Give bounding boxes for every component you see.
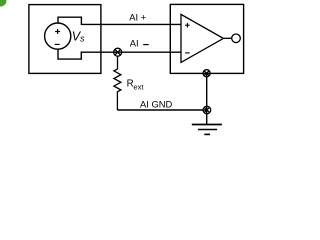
svg-text:AI +: AI +	[129, 12, 146, 23]
svg-text:s: s	[80, 33, 85, 43]
VS plus terminal mark	[55, 29, 60, 34]
svg-text:ext: ext	[133, 82, 144, 91]
resistor Rext	[114, 56, 121, 110]
ground symbol	[192, 125, 222, 135]
svg-text:AI GND: AI GND	[140, 99, 173, 110]
wire: AI GND vertical drop from DAQ box to ground	[206, 73, 208, 124]
connector pin (circled X) on AI- wire	[114, 48, 122, 56]
signal source enclosure box	[29, 5, 101, 74]
VS minus terminal mark	[55, 43, 60, 45]
DAQ device box	[170, 4, 243, 73]
voltage source VS circle	[45, 23, 71, 49]
svg-text:AI: AI	[130, 38, 139, 49]
connector pin (circled X) on DAQ box bottom edge	[203, 70, 210, 77]
op-amp non-inverting input mark	[185, 23, 190, 28]
op-amp inverting input mark	[185, 52, 190, 54]
wire: AI- from source bottom through plug step to amplifier	[58, 49, 181, 59]
green bullet	[0, 0, 7, 7]
connector pin (circled X) at AI GND junction	[203, 106, 211, 114]
wire: AI+ from source top through plug step to amplifier	[58, 17, 181, 24]
op-amp output terminal circle	[232, 34, 241, 43]
wire: AI GND from resistor bottom to ground pin	[117, 109, 206, 111]
op-amp instrumentation amplifier triangle	[181, 14, 223, 62]
wire: op-amp output	[223, 37, 231, 39]
